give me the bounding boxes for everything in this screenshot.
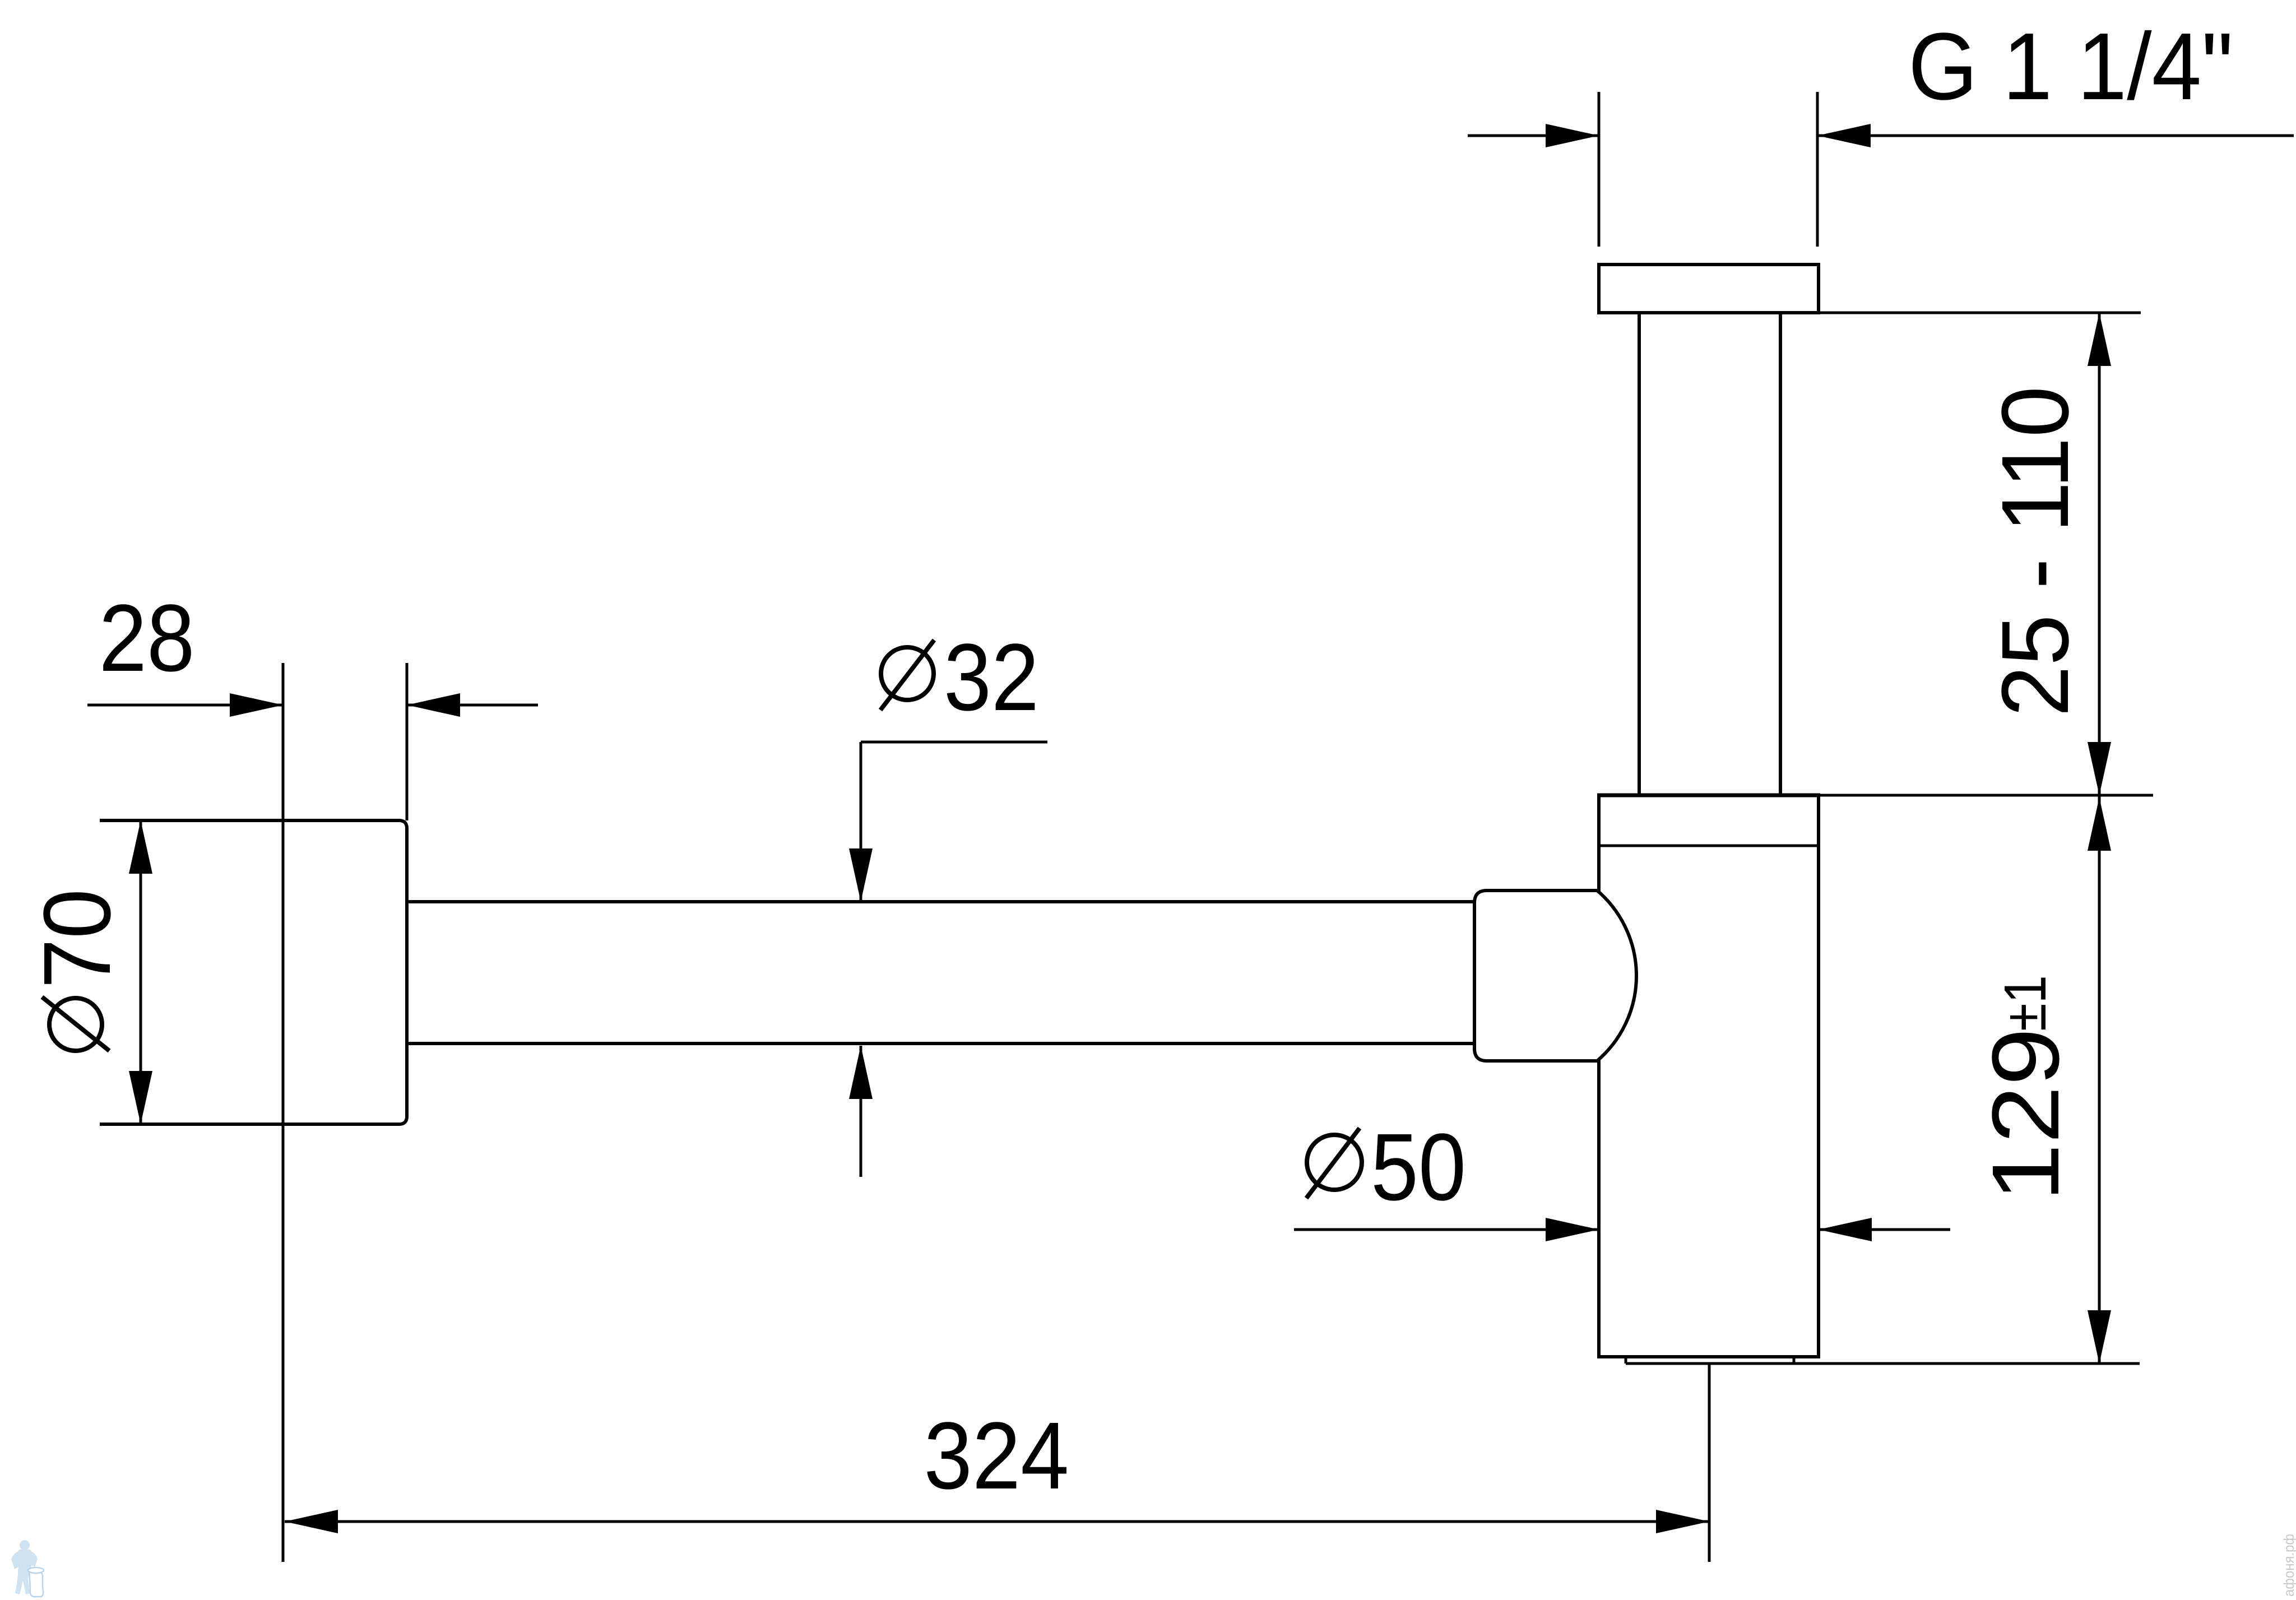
label 28 — [99, 585, 195, 692]
d70 dimension line — [129, 820, 152, 1124]
wall flange (left rosette, 28 deep, d70) — [100, 820, 407, 1124]
25-110 and 129 dimension line — [2088, 313, 2111, 1364]
d32 lower leader arrow — [849, 1046, 873, 1177]
horizontal pipe d32 top outline — [407, 900, 1479, 903]
28 dimension line left — [87, 693, 283, 717]
svg-text:70: 70 — [24, 889, 131, 989]
d32 leader line — [849, 742, 1047, 902]
bottle bottom cap — [1626, 1357, 1794, 1364]
G 1 1/4 extension lines — [1599, 92, 1817, 247]
right dims extension line middle (bottle top) — [1819, 794, 2153, 797]
wall line — [282, 663, 285, 1562]
28 dimension line right — [407, 693, 538, 717]
G 1 1/4 dimension line right — [1817, 124, 2294, 147]
svg-text:50: 50 — [1371, 1114, 1466, 1221]
compression nut at pipe-bottle junction — [1474, 891, 1636, 1061]
d50 dimension line left — [1294, 1218, 1599, 1241]
svg-text:G 1 1/4": G 1 1/4" — [1908, 13, 2233, 120]
d50 dimension line right — [1819, 1218, 1950, 1241]
svg-text:±1: ±1 — [1992, 975, 2058, 1031]
svg-text:32: 32 — [944, 624, 1039, 731]
svg-text:25 - 110: 25 - 110 — [1982, 386, 2089, 717]
label d50 — [1306, 1114, 1466, 1221]
label 25 - 110 — [1982, 386, 2089, 717]
watermark plumber logo — [11, 1540, 44, 1597]
label 129 +/-1 — [1973, 975, 2079, 1202]
label 324 — [924, 1403, 1069, 1509]
watermark text — [2280, 1534, 2296, 1597]
label d70 — [24, 889, 131, 1051]
right dims extension line bottom (cap bottom) — [1794, 1362, 2140, 1365]
right dims extension line top (rosette bottom) — [1819, 312, 2141, 314]
bottle top flange — [1597, 795, 1820, 846]
vertical inlet pipe — [1639, 313, 1780, 795]
svg-text:афоня.рф: афоня.рф — [2280, 1534, 2296, 1597]
svg-text:129: 129 — [1973, 1028, 2079, 1202]
G 1 1/4 dimension line left — [1468, 124, 1599, 147]
top rosette (G 1 1/4 nut) — [1599, 265, 1819, 313]
svg-text:28: 28 — [99, 585, 195, 692]
label d32 — [880, 624, 1039, 731]
28 extension line — [406, 663, 409, 820]
svg-text:324: 324 — [924, 1403, 1069, 1509]
bottle body d50 — [1597, 795, 1820, 1357]
label G 1 1/4" — [1908, 13, 2233, 120]
horizontal pipe d32 bottom outline — [407, 1042, 1479, 1045]
324 right extension line — [1708, 1364, 1711, 1562]
324 dimension line — [285, 1510, 1709, 1533]
